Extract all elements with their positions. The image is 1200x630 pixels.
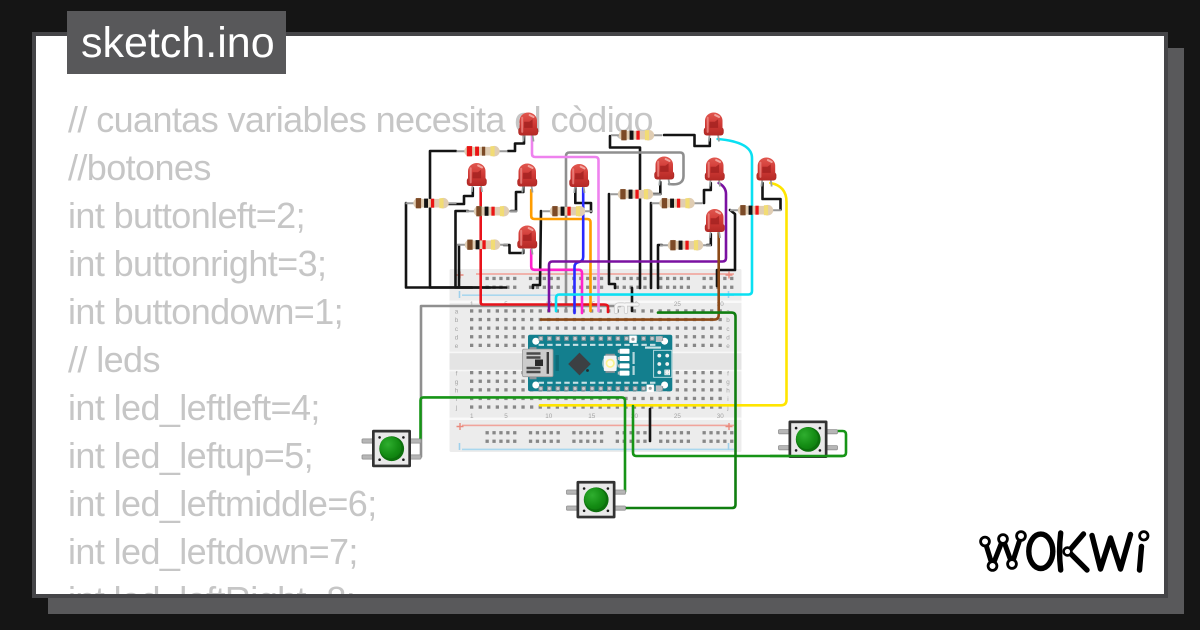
wire black jumper top rail to row a col 20 [631, 288, 634, 311]
svg-text:e: e [726, 343, 730, 350]
resistor R2 1k [611, 130, 662, 141]
wire black R3-left to top rail [406, 203, 490, 288]
wire black R8-right to LED6 cathode [504, 245, 523, 253]
wire orange LED3 anode to row a col 15 [531, 190, 590, 311]
resistor R1 220 [457, 146, 508, 157]
resistor R4 1k [466, 206, 517, 217]
svg-text:j: j [455, 405, 457, 412]
pushbutton SW3 green [779, 421, 838, 459]
wire black R5-right to LED4 cathode [575, 188, 591, 212]
wire black LED9 cathode to R10-right [763, 183, 781, 210]
wire black R8-left to top rail [458, 245, 461, 287]
led LED9 red [757, 158, 777, 187]
svg-text:10: 10 [545, 413, 553, 420]
wire black R7-left to top rail [650, 203, 653, 288]
wire black R1-right to LED1 cathode [508, 136, 524, 151]
resistor R9 1k [660, 240, 711, 251]
wokwi logo [981, 532, 1148, 571]
svg-text:d: d [455, 334, 459, 341]
svg-text:h: h [455, 388, 459, 395]
wire black R5-left to top rail [533, 211, 541, 288]
wire black R4-right to LED3 cathode [511, 187, 523, 211]
wire white jumper row a col 18-19 [616, 305, 626, 313]
wire white jumper halo [616, 305, 638, 313]
svg-text:i: i [727, 396, 728, 403]
wire black R3-right to LED2 cathode [447, 188, 473, 204]
pushbutton SW2 green [567, 481, 626, 519]
wire purple LED8 anode to row a col 10 [549, 183, 726, 311]
wire black R9-left to top rail [658, 245, 662, 288]
wire black R2-right to LED7 cathode [664, 135, 710, 146]
resistor R7 1k [652, 198, 703, 209]
svg-text:c: c [726, 326, 729, 333]
wire red LED2 anode to row a col 17 [481, 188, 608, 312]
arduino nano U1 [523, 335, 673, 392]
led LED6 red [517, 226, 537, 255]
svg-text:d: d [726, 334, 730, 341]
wire green button1 to button2 via row i [411, 397, 625, 491]
wire green row j col 20 loop to button3 [633, 406, 846, 456]
wire black R7-right to LED8 cathode [704, 183, 711, 203]
wire blue LED4 anode to row a col 13 [575, 188, 584, 313]
led LED2 red [467, 163, 487, 192]
wire gray LED5 anode to row a col 12 [566, 153, 684, 312]
faded source code text [68, 96, 653, 624]
svg-text:15: 15 [588, 413, 596, 420]
led LED5 red [654, 157, 674, 186]
breadboard [450, 269, 742, 452]
led LED8 red [705, 158, 725, 187]
sketch.ino filename tab [67, 11, 286, 74]
svg-text:5: 5 [504, 413, 508, 420]
svg-text:e: e [455, 343, 459, 350]
resistor R5 1k [542, 206, 593, 217]
wire black R10-left to top rail [717, 210, 735, 286]
resistor R6 1k [610, 189, 661, 200]
led LED1 red [518, 113, 538, 142]
resistor R10 1k [730, 205, 781, 216]
svg-text:b: b [726, 317, 730, 324]
pushbutton SW1 green [362, 430, 421, 468]
wire green overlay across SW3 [770, 455, 843, 458]
svg-text:25: 25 [674, 301, 682, 308]
led LED7 red [704, 113, 724, 142]
wire brown LED10 anode to row b col 9 [541, 233, 719, 320]
svg-text:1: 1 [470, 413, 474, 420]
resistor R3 1k [406, 198, 457, 209]
wire black LED10 cathode to R9-right [707, 234, 711, 245]
svg-text:f: f [456, 370, 458, 377]
svg-text:g: g [726, 379, 730, 386]
resistor R8 1k [457, 239, 508, 250]
wire cyan LED7 anode to row a col 11 [556, 139, 752, 311]
svg-text:h: h [726, 388, 730, 395]
wire green row a col 23 to button2 [624, 313, 736, 508]
wire magenta LED6 anode to row a col 14 [531, 250, 582, 313]
wire black R4-left to top rail [456, 211, 507, 288]
wire black R6-left to top rail [609, 194, 615, 288]
led LED4 red [569, 164, 589, 193]
svg-text:f: f [727, 370, 729, 377]
wire violet LED1 anode to row a col 16 [532, 136, 599, 311]
svg-text:25: 25 [674, 413, 682, 420]
wire yellow LED9 anode to row j col 9 [540, 183, 787, 405]
svg-text:30: 30 [717, 413, 725, 420]
wire black R1-left to top rail [430, 151, 472, 288]
wire gray button1 to breadboard [411, 306, 620, 457]
wire black R6-right to LED5 cathode [649, 182, 660, 194]
svg-text:g: g [455, 379, 459, 386]
wire black R2-left to top rail [610, 136, 640, 288]
led LED3 red [517, 164, 537, 193]
svg-text:c: c [455, 326, 458, 333]
svg-text:b: b [455, 317, 459, 324]
wire white stub row a col 19 [626, 303, 638, 306]
wire black row j to bottom rail [649, 409, 652, 441]
led LED10 red [705, 209, 725, 238]
svg-text:a: a [455, 309, 459, 316]
